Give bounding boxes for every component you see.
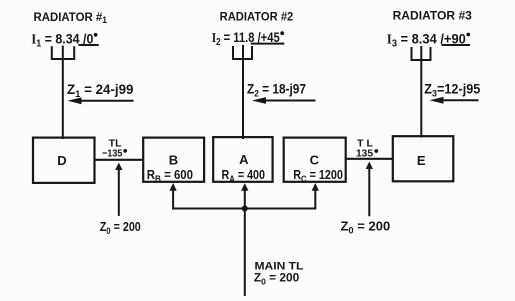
arrow: Z2 looking toward radiator 2 — [252, 97, 316, 104]
box E (phasing network) — [393, 136, 454, 181]
impedance Z3 label — [424, 82, 480, 100]
wire: feed line radiator 2 down to box A — [242, 59, 244, 139]
arrow: Z0 pointer to C-E line — [366, 162, 373, 217]
svg-text:RB = 600: RB = 600 — [147, 168, 193, 184]
radiator #2 title label — [220, 10, 294, 24]
junction node dot — [242, 206, 248, 212]
svg-text:RADIATOR #1: RADIATOR #1 — [34, 10, 108, 25]
arrow: Z1 looking toward radiator 1 — [68, 97, 134, 104]
svg-text:E: E — [417, 153, 426, 168]
wire: transmission line box C to box E — [346, 158, 393, 160]
bus wire from main TL splitting left and right — [173, 190, 315, 209]
svg-text:Z0 = 200: Z0 = 200 — [100, 220, 141, 236]
label TL -135 degrees — [102, 139, 127, 160]
svg-text:−135: −135 — [102, 148, 122, 160]
svg-text:RADIATOR #2: RADIATOR #2 — [220, 10, 294, 24]
box C with RC value — [284, 138, 346, 185]
radiator R1 antenna symbol — [52, 46, 74, 60]
svg-text:Z1 = 24-j99: Z1 = 24-j99 — [67, 82, 134, 100]
label TL 135 degrees — [356, 138, 378, 159]
wire and arrow into box A bottom — [241, 183, 248, 209]
svg-text:135: 135 — [356, 148, 373, 160]
arrow: Z3 looking toward radiator 3 — [430, 97, 479, 104]
svg-text:I2 = 11.8 /+45: I2 = 11.8 /+45 — [212, 29, 280, 48]
radiator R3 antenna symbol — [412, 46, 431, 60]
svg-text:Z0 = 200: Z0 = 200 — [341, 220, 391, 236]
label Z0=200 (left) — [100, 220, 141, 236]
svg-text:Z3=12-j95: Z3=12-j95 — [424, 82, 480, 100]
label Z0 = 200 (right) — [341, 220, 391, 236]
radiator #1 title label — [34, 10, 108, 25]
box D (phasing network) — [33, 138, 95, 183]
wire: feed line radiator 3 down to box E — [420, 60, 422, 138]
svg-text:RC = 1200: RC = 1200 — [293, 168, 343, 184]
arrow into box B bottom — [170, 183, 177, 191]
impedance Z2 label — [247, 82, 306, 100]
svg-text:Z0 = 200: Z0 = 200 — [254, 270, 300, 286]
wire: main transmission line — [244, 209, 246, 297]
svg-text:I3 = 8.34 /+90: I3 = 8.34 /+90 — [387, 30, 466, 49]
svg-text:D: D — [57, 153, 66, 168]
svg-text:RA = 400: RA = 400 — [222, 168, 266, 184]
wire: feed line radiator 1 down to box D — [62, 59, 64, 139]
impedance Z1 label — [67, 82, 134, 100]
box A with RA value — [213, 137, 272, 184]
current I3 value label — [387, 30, 470, 49]
svg-text:RADIATOR #3: RADIATOR #3 — [393, 9, 473, 23]
radiator R2 antenna symbol — [233, 45, 252, 59]
svg-text:Z2 = 18-j97: Z2 = 18-j97 — [247, 82, 306, 100]
current I1 value label — [31, 30, 98, 49]
svg-text:B: B — [169, 152, 178, 167]
radiator #3 title label — [393, 9, 473, 23]
label MAIN TL — [254, 261, 304, 287]
svg-text:A: A — [239, 152, 249, 167]
wire: transmission line box D to box B — [95, 159, 144, 161]
current I2 value label — [212, 29, 285, 48]
arrow: Z0 pointer to D-B line — [115, 163, 122, 216]
box B with RB value — [143, 138, 204, 185]
arrow into box C bottom — [312, 183, 319, 191]
svg-text:C: C — [310, 152, 320, 167]
